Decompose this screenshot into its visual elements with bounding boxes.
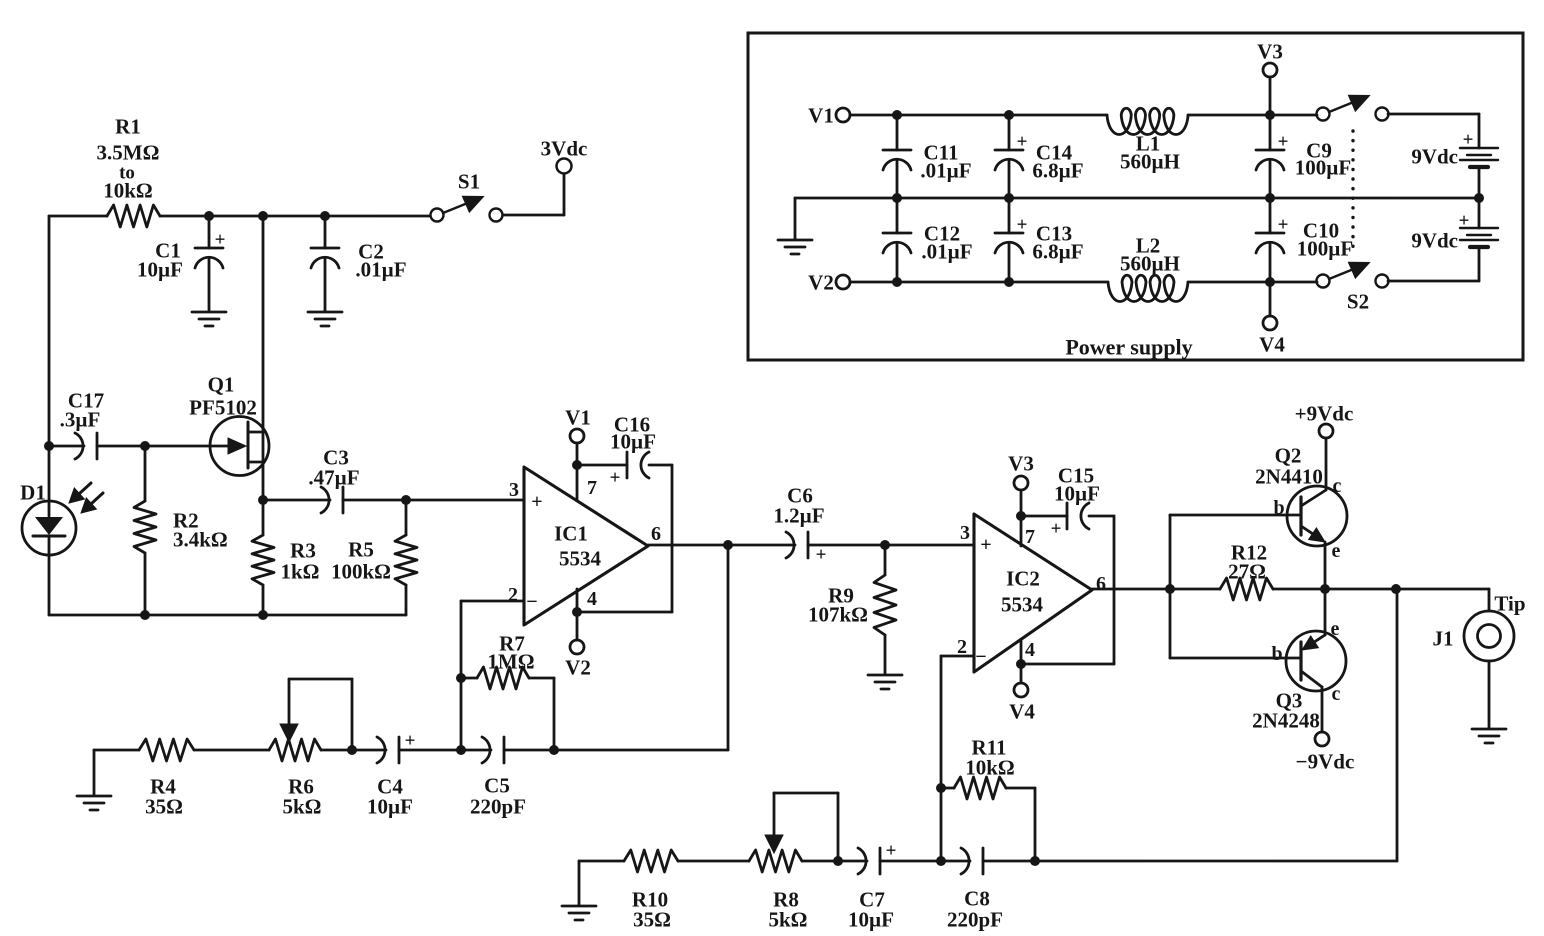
terminal V1 — [808, 103, 850, 127]
svg-text:10kΩ: 10kΩ — [103, 178, 153, 202]
wire — [576, 443, 579, 500]
wire — [880, 860, 941, 863]
junction — [140, 610, 150, 620]
svg-text:IC1: IC1 — [554, 521, 588, 545]
svg-text:+: + — [1278, 215, 1289, 236]
wire — [399, 749, 461, 752]
svg-text:R5: R5 — [348, 537, 374, 561]
wire — [648, 544, 795, 547]
junction — [572, 460, 582, 470]
wire — [727, 545, 730, 750]
svg-text:+: + — [1051, 519, 1062, 540]
ground — [562, 906, 596, 920]
svg-text:1kΩ: 1kΩ — [281, 559, 320, 583]
svg-text:V2: V2 — [808, 270, 834, 294]
wire — [1388, 114, 1479, 148]
svg-text:b: b — [1271, 643, 1282, 665]
wire — [1169, 515, 1172, 658]
wire — [1092, 588, 1220, 591]
wire — [406, 499, 524, 502]
svg-text:+: + — [980, 534, 991, 556]
battery 9Vdc — [1411, 130, 1498, 169]
IC1 pin 3 — [509, 479, 519, 501]
terminal V1 — [565, 405, 591, 443]
jack J1 — [1433, 589, 1526, 728]
svg-text:.01µF: .01µF — [921, 239, 972, 263]
svg-text:220pF: 220pF — [470, 794, 526, 818]
wire — [97, 445, 211, 448]
svg-text:V3: V3 — [1257, 39, 1283, 63]
IC2 pin 2 — [957, 636, 967, 658]
svg-text:107kΩ: 107kΩ — [808, 602, 868, 626]
wire — [321, 749, 352, 752]
wire — [48, 554, 51, 615]
junction — [723, 540, 733, 550]
wire — [577, 465, 672, 612]
junction — [401, 495, 411, 505]
svg-text:−9Vdc: −9Vdc — [1296, 749, 1355, 773]
svg-text:D1: D1 — [20, 480, 46, 504]
svg-text:S1: S1 — [458, 169, 480, 193]
op-amp IC2 — [974, 514, 1092, 672]
capacitor C16 — [577, 412, 656, 488]
resistor R3 — [252, 500, 320, 615]
wire — [504, 749, 554, 752]
svg-text:6: 6 — [651, 523, 661, 545]
wire — [461, 600, 524, 603]
capacitor C5 — [470, 737, 526, 818]
wire — [1170, 657, 1300, 660]
capacitor C8 — [947, 848, 1003, 931]
wire — [48, 446, 51, 502]
junction — [1016, 511, 1026, 521]
ground — [778, 240, 812, 254]
wire — [352, 749, 386, 752]
terminal V4 — [1009, 683, 1035, 723]
svg-text:V2: V2 — [565, 655, 591, 679]
wire — [49, 614, 406, 617]
battery 9Vdc — [1411, 211, 1498, 253]
svg-text:−: − — [975, 646, 986, 668]
svg-text:3: 3 — [509, 479, 519, 501]
capacitor C17 — [49, 388, 104, 459]
junction — [1004, 277, 1014, 287]
wire — [1188, 114, 1317, 117]
junction — [892, 193, 902, 203]
svg-text:V4: V4 — [1259, 332, 1285, 356]
svg-text:10µF: 10µF — [137, 257, 183, 281]
svg-text:.01µF: .01µF — [920, 158, 971, 182]
svg-text:6: 6 — [1096, 573, 1106, 595]
junction — [892, 110, 902, 120]
wire — [1325, 438, 1328, 490]
capacitor C15 — [1021, 463, 1100, 539]
wire — [850, 281, 1108, 284]
ground — [308, 312, 342, 326]
svg-text:10µF: 10µF — [367, 794, 413, 818]
photodiode D1 — [20, 480, 103, 555]
resistor R10 — [624, 850, 678, 931]
svg-text:S2: S2 — [1347, 289, 1369, 313]
svg-text:10µF: 10µF — [848, 907, 894, 931]
junction — [1391, 584, 1401, 594]
wire — [802, 860, 838, 863]
terminal V3 — [1257, 39, 1283, 77]
terminal V2 — [808, 270, 850, 294]
svg-text:J1: J1 — [1433, 626, 1454, 650]
svg-text:b: b — [1273, 497, 1284, 519]
IC1 pin 7 — [587, 477, 597, 499]
svg-text:PF5102: PF5102 — [189, 395, 257, 419]
svg-text:3.4kΩ: 3.4kΩ — [173, 527, 228, 551]
svg-text:35Ω: 35Ω — [145, 794, 183, 818]
junction — [1165, 584, 1175, 594]
capacitor C14 — [995, 115, 1084, 198]
resistor R1 — [97, 114, 160, 227]
svg-text:7: 7 — [1025, 526, 1035, 548]
wire — [1388, 280, 1479, 283]
wire — [808, 544, 974, 547]
svg-text:100kΩ: 100kΩ — [331, 559, 391, 583]
svg-text:−: − — [526, 591, 537, 613]
junction — [258, 610, 268, 620]
svg-text:100µF: 100µF — [1295, 155, 1351, 179]
junction — [880, 540, 890, 550]
IC2 pin 6 — [1096, 573, 1106, 595]
junction — [1265, 277, 1275, 287]
resistor R2 — [134, 446, 228, 615]
wire — [1020, 490, 1023, 546]
svg-text:+: + — [1463, 130, 1474, 151]
wire — [1478, 167, 1481, 198]
svg-text:1MΩ: 1MΩ — [487, 649, 534, 673]
terminal 3Vdc — [541, 136, 588, 173]
terminal V4 — [1259, 316, 1285, 356]
wire — [838, 860, 867, 863]
svg-text:e: e — [1332, 540, 1341, 562]
svg-text:2N4410: 2N4410 — [1255, 464, 1323, 488]
capacitor C10 — [1256, 198, 1353, 282]
wire — [795, 197, 1479, 200]
wire — [940, 656, 943, 861]
svg-text:V4: V4 — [1009, 699, 1035, 723]
svg-text:+: + — [1459, 211, 1470, 232]
ground — [192, 312, 226, 326]
svg-text:9Vdc: 9Vdc — [1411, 144, 1458, 168]
wire — [553, 678, 556, 750]
inductor L1 — [1107, 108, 1188, 173]
wire — [941, 655, 974, 658]
svg-text:+: + — [610, 468, 621, 489]
svg-text:6.8µF: 6.8µF — [1032, 158, 1083, 182]
wire — [1020, 641, 1023, 683]
svg-text:3: 3 — [960, 522, 970, 544]
svg-text:5534: 5534 — [1001, 592, 1044, 616]
capacitor C1 — [137, 216, 225, 311]
svg-text:7: 7 — [587, 477, 597, 499]
potentiometer R6 — [269, 679, 322, 818]
svg-text:220pF: 220pF — [947, 907, 1003, 931]
IC1 pin 4 — [587, 588, 597, 610]
resistor R12 — [1220, 540, 1273, 600]
wire — [262, 432, 265, 500]
wire — [1325, 588, 1396, 591]
svg-text:+: + — [816, 545, 827, 566]
svg-text:2N4248: 2N4248 — [1252, 708, 1320, 732]
wire — [343, 499, 406, 502]
svg-text:9Vdc: 9Vdc — [1411, 228, 1458, 252]
IC1 pin 2 — [508, 584, 518, 606]
junction — [140, 441, 150, 451]
svg-text:4: 4 — [587, 588, 597, 610]
svg-text:5kΩ: 5kΩ — [769, 907, 808, 931]
junction — [44, 441, 54, 451]
wire — [461, 749, 491, 752]
wire — [1035, 860, 1397, 863]
svg-text:.47µF: .47µF — [308, 465, 359, 489]
svg-text:+: + — [531, 491, 542, 513]
wire — [794, 198, 797, 239]
wire — [1170, 514, 1300, 517]
svg-text:560µH: 560µH — [1120, 251, 1180, 275]
capacitor C4 — [367, 731, 415, 819]
wire — [579, 861, 624, 905]
svg-text:1.2µF: 1.2µF — [773, 503, 824, 527]
svg-text:c: c — [1333, 475, 1342, 497]
junction — [1320, 584, 1330, 594]
junction — [258, 495, 268, 505]
svg-text:2: 2 — [508, 584, 518, 606]
svg-text:R1: R1 — [115, 114, 141, 138]
svg-text:+: + — [1017, 215, 1028, 236]
IC2 pin 4 — [1025, 639, 1035, 661]
wire — [94, 750, 139, 795]
junction — [456, 745, 466, 755]
junction — [1265, 193, 1275, 203]
wire — [678, 860, 749, 863]
wire — [160, 215, 430, 218]
junction — [204, 211, 214, 221]
svg-text:.3µF: .3µF — [60, 407, 101, 431]
wire — [48, 216, 51, 446]
wire — [262, 216, 265, 432]
switch S2a — [1317, 95, 1389, 121]
junction — [936, 783, 946, 793]
IC2 pin 7 — [1025, 526, 1035, 548]
inductor L2 — [1108, 233, 1188, 301]
switch link — [1351, 131, 1354, 255]
svg-text:5534: 5534 — [559, 546, 602, 570]
wire — [49, 215, 107, 218]
junction — [892, 277, 902, 287]
power supply box — [748, 33, 1523, 360]
junction — [258, 211, 268, 221]
junction — [549, 745, 559, 755]
wire — [941, 860, 970, 863]
ground — [1472, 729, 1506, 743]
switch S2b — [1317, 262, 1389, 314]
wire — [1324, 542, 1327, 589]
wire — [1034, 788, 1037, 861]
svg-text:2: 2 — [957, 636, 967, 658]
svg-text:Q1: Q1 — [208, 372, 235, 396]
svg-text:3.5MΩ: 3.5MΩ — [97, 140, 160, 164]
svg-text:+: + — [405, 731, 416, 752]
transistor Q1 — [189, 372, 269, 475]
svg-text:+: + — [886, 841, 897, 862]
svg-text:.01µF: .01µF — [355, 257, 406, 281]
junction — [320, 211, 330, 221]
junction — [1265, 110, 1275, 120]
svg-text:100µF: 100µF — [1297, 236, 1353, 260]
capacitor C2 — [311, 216, 407, 311]
junction — [1474, 193, 1484, 203]
wire — [503, 174, 564, 215]
resistor R11 — [941, 735, 1035, 799]
wire — [576, 589, 579, 640]
transistor Q2 — [1255, 443, 1347, 562]
wire — [1396, 589, 1399, 861]
wire — [1396, 588, 1489, 591]
capacitor C3 — [263, 445, 360, 513]
junction — [1030, 856, 1040, 866]
resistor R9 — [808, 545, 896, 674]
ground — [77, 796, 111, 810]
switch S1 — [431, 169, 503, 221]
capacitor C13 — [995, 198, 1084, 282]
wire — [554, 749, 728, 752]
capacitor C6 — [773, 483, 826, 565]
wire — [774, 793, 838, 861]
terminal -9Vdc — [1296, 732, 1355, 773]
svg-text:V1: V1 — [565, 405, 591, 429]
wire — [1324, 589, 1327, 635]
svg-text:V3: V3 — [1008, 451, 1034, 475]
wire — [1021, 516, 1114, 664]
svg-text:V1: V1 — [808, 103, 834, 127]
wire — [1478, 198, 1481, 281]
junction — [1004, 110, 1014, 120]
terminal V2 — [565, 640, 591, 679]
svg-text:27Ω: 27Ω — [1228, 559, 1266, 583]
wire — [850, 114, 1107, 117]
wire — [1273, 588, 1325, 591]
svg-text:Tip: Tip — [1494, 591, 1525, 615]
capacitor C9 — [1256, 115, 1351, 198]
junction — [572, 607, 582, 617]
wire — [983, 860, 1035, 863]
svg-text:+: + — [1017, 132, 1028, 153]
ground — [868, 675, 902, 689]
IC2 pin 3 — [960, 522, 970, 544]
wire — [194, 749, 269, 752]
junction — [347, 745, 357, 755]
resistor R4 — [139, 739, 194, 818]
svg-text:560µH: 560µH — [1120, 149, 1180, 173]
terminal +9Vdc — [1295, 401, 1354, 438]
svg-text:c: c — [1332, 683, 1341, 705]
wire — [1269, 282, 1272, 316]
svg-text:3Vdc: 3Vdc — [541, 136, 588, 160]
svg-text:e: e — [1331, 618, 1340, 640]
svg-text:+: + — [1278, 132, 1289, 153]
svg-text:35Ω: 35Ω — [633, 907, 671, 931]
wire — [1269, 77, 1272, 115]
capacitor C11 — [883, 115, 972, 198]
junction — [456, 673, 466, 683]
junction — [936, 856, 946, 866]
transistor Q3 — [1252, 618, 1346, 732]
svg-text:5kΩ: 5kΩ — [283, 794, 322, 818]
wire — [289, 679, 352, 750]
op-amp IC1 — [524, 467, 648, 625]
resistor R7 — [461, 631, 554, 689]
wire — [1188, 281, 1317, 284]
wire — [460, 601, 463, 750]
svg-text:10µF: 10µF — [1054, 481, 1100, 505]
svg-text:10µF: 10µF — [610, 429, 656, 453]
resistor R5 — [331, 500, 417, 615]
junction — [833, 856, 843, 866]
capacitor C12 — [883, 198, 973, 282]
svg-text:IC2: IC2 — [1006, 566, 1040, 590]
svg-text:10kΩ: 10kΩ — [965, 755, 1015, 779]
svg-text:6.8µF: 6.8µF — [1032, 239, 1083, 263]
svg-text:4: 4 — [1025, 639, 1035, 661]
wire — [1321, 687, 1324, 732]
potentiometer R8 — [749, 793, 808, 931]
IC1 pin 6 — [651, 523, 661, 545]
capacitor C7 — [848, 841, 896, 932]
svg-text:+9Vdc: +9Vdc — [1295, 401, 1354, 425]
junction — [1004, 193, 1014, 203]
junction — [1016, 659, 1026, 669]
terminal V3 — [1008, 451, 1034, 490]
svg-text:+: + — [215, 230, 226, 251]
svg-text:Power supply: Power supply — [1065, 335, 1192, 360]
